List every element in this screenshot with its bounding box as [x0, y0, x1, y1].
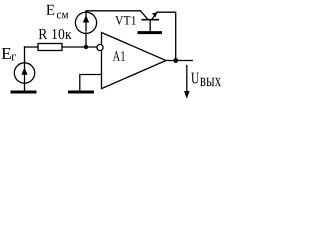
label E_см	[46, 5, 68, 19]
ground (non-inverting input)	[70, 91, 93, 94]
source E_г (circle with up arrow)	[14, 63, 34, 83]
resistor R1 body	[38, 44, 62, 51]
ground (below E_г)	[12, 91, 35, 94]
U_вых arrow	[186, 66, 188, 92]
inverting input circle	[97, 44, 103, 50]
label R 10к	[39, 29, 72, 39]
wire resistor to inverting input	[62, 46, 97, 48]
label U_вых	[191, 73, 221, 87]
transistor VT1 base bar	[142, 19, 158, 21]
output wire	[166, 60, 192, 62]
wire E_г top to resistor	[25, 46, 39, 48]
transistor VT1 collector lead	[141, 11, 148, 19]
output node junction	[173, 58, 178, 63]
ground (VT1 base)	[139, 31, 161, 34]
op-amp A1 triangle	[102, 33, 167, 89]
source E_см (circle with up arrow)	[75, 12, 96, 33]
label VT1	[115, 16, 136, 25]
transistor VT1 emitter lead with arrow	[152, 12, 157, 19]
non-inverting input wire	[80, 75, 102, 91]
wire E_см top to VT1 collector	[86, 11, 141, 12]
label E_г	[2, 48, 16, 61]
wire VT1 emitter to output node	[157, 12, 176, 60]
VT1 base lead to ground	[149, 21, 151, 32]
node junction (E_см bottom / input wire)	[84, 45, 88, 49]
